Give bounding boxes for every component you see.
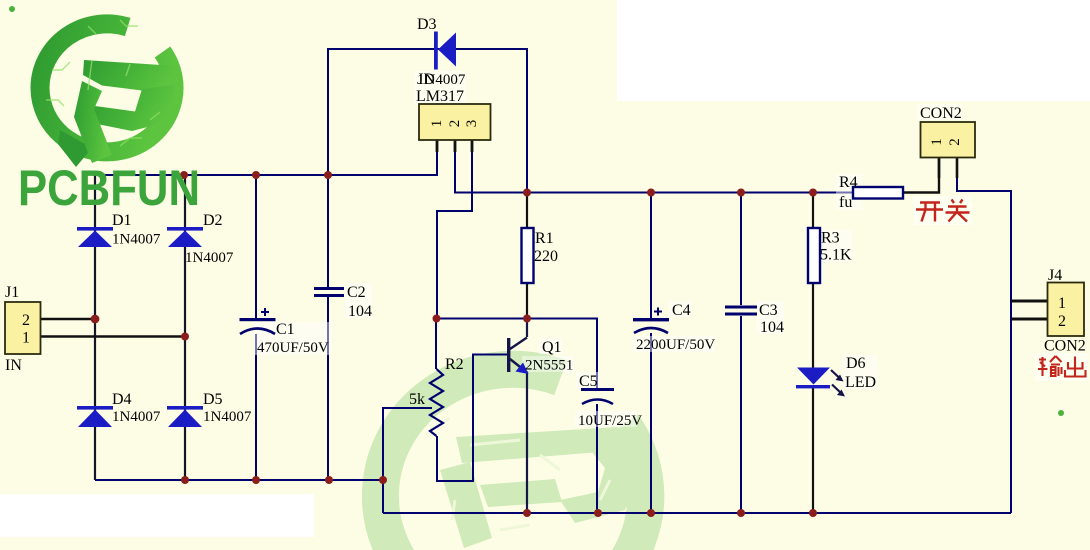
junction D2 top rail [180,171,188,179]
wire Q1 emitter column [526,371,528,513]
watermark logo [380,369,645,550]
diode D2 [167,227,203,247]
svg-text:1N4007: 1N4007 [112,409,161,425]
svg-text:R4: R4 [839,174,858,191]
svg-text:220: 220 [534,248,558,265]
logo PCBFUN top left [40,20,176,167]
svg-text:2: 2 [447,120,463,128]
wire R2 bottom to Q1 base [437,355,509,482]
svg-text:LED: LED [845,374,876,391]
pin J1 pin1 stub [40,335,185,338]
resistor R3 [808,228,820,283]
junction R2 wiper ground [379,476,387,484]
wire adj rail y=318.5 [436,319,597,389]
wire ground rail left y=480 [95,480,383,513]
wire rail Vin y=175 [95,140,437,175]
pin J4 pin1 stub [1011,300,1047,303]
capacitor C1 [240,308,276,334]
svg-text:2: 2 [1058,313,1066,330]
wire R2 top lead [435,319,437,370]
junction R1 bottom collector [523,315,531,323]
junction C3 output rail [737,189,745,197]
svg-text:C2: C2 [347,284,366,301]
svg-text:1N4007: 1N4007 [185,250,234,266]
svg-text:3: 3 [464,120,480,128]
junction Q1 emitter ground [523,509,531,517]
junction C1 top rail [252,171,260,179]
junction J1 pin1 node [181,333,189,341]
wire R2 wiper to ground [383,408,432,480]
wire LM317 pin3 adj [437,140,472,319]
wire C5 bottom lead [596,404,598,513]
label halos (jpeg-style light boxes) [254,71,1089,427]
wire C1 column [255,175,257,480]
svg-text:1: 1 [1058,295,1066,312]
wire D1 column [94,175,96,480]
junction C3 ground [737,509,745,517]
junction R1 output rail [523,189,531,197]
svg-text:JD: JD [417,71,435,88]
wire ground rail bottom y=513 [383,512,1011,514]
pin J1 pin2 stub [40,318,95,321]
pin CON2 stubs [939,158,957,178]
svg-text:2200UF/50V: 2200UF/50V [636,337,715,353]
svg-text:2: 2 [947,138,963,146]
svg-text:R3: R3 [821,230,840,247]
pin LM317 stubs [437,140,472,152]
svg-text:C4: C4 [672,302,691,319]
svg-text:PCBFUN: PCBFUN [18,160,200,216]
wire D2 column [184,175,186,480]
wire top loop D3 net [328,49,527,193]
junction D6 ground [809,509,817,517]
svg-text:104: 104 [760,319,784,336]
junction C4 ground [647,509,655,517]
resistor R2 (5k) zigzag [430,369,443,436]
junction D5 ground rail [181,476,189,484]
capacitor C3 [725,306,757,316]
resistor R4 [853,187,903,199]
junction C5 ground [594,509,602,517]
svg-text:fu: fu [839,194,852,211]
wire C3 column [740,193,742,514]
green speck right [1058,410,1064,416]
pin J4 pin2 stub [1011,318,1047,321]
diode D5 [167,406,203,427]
svg-text:C5: C5 [579,373,598,390]
svg-text:D6: D6 [846,355,866,372]
diode D1 [77,227,113,247]
diode D4 [77,406,113,427]
svg-text:C3: C3 [759,302,778,319]
capacitor C4 [633,308,669,334]
svg-text:1N4007: 1N4007 [203,409,252,425]
junction R3 output rail [809,189,817,197]
svg-text:D5: D5 [203,391,223,408]
wire R3 D6 column [812,193,814,514]
capacitor C5 [581,388,614,404]
capacitor C2 [314,287,344,297]
svg-text:J4: J4 [1048,267,1062,284]
wire C4 column [650,193,652,514]
label kaiguan (switch) red [916,200,970,222]
green speck top left [9,6,15,12]
white patch top right [617,0,1090,101]
wire R4 right to CON2 pin1 [903,158,939,193]
transistor Q1 [507,338,529,375]
svg-text:D2: D2 [203,212,223,229]
svg-text:104: 104 [348,303,372,320]
svg-text:2: 2 [22,312,30,329]
white patch bottom left [0,494,314,537]
wire CON2 pin2 down right to J4 column [957,158,1011,513]
svg-text:CON2: CON2 [920,105,962,122]
svg-text:D3: D3 [417,16,437,33]
svg-text:R1: R1 [535,230,554,247]
svg-text:1: 1 [929,138,945,146]
svg-text:LM317: LM317 [416,88,464,105]
svg-text:10UF/25V: 10UF/25V [578,413,642,429]
junction C2 top rail [324,171,332,179]
wire Q1 collector lead [526,319,528,338]
wire C2 column [327,175,329,480]
LED D6 [796,368,845,397]
svg-text:D4: D4 [112,391,132,408]
junction J1 pin2 node [91,315,100,324]
junction C1 ground rail [252,476,260,484]
svg-text:5k: 5k [409,391,425,408]
wire R1 leads [526,193,528,229]
svg-text:1: 1 [429,120,445,128]
svg-text:CON2: CON2 [1044,338,1086,355]
resistor R1 [522,228,534,283]
junction adj node R2 [433,315,441,323]
svg-text:R2: R2 [445,356,464,373]
svg-text:5.1K: 5.1K [820,247,852,264]
svg-text:2N5551: 2N5551 [525,358,573,374]
svg-text:1: 1 [22,330,30,347]
svg-text:1N4007: 1N4007 [112,232,161,248]
svg-text:470UF/50V: 470UF/50V [257,340,329,356]
diode D3 [434,32,456,70]
svg-text:Q1: Q1 [542,339,562,356]
svg-text:IN: IN [5,357,22,374]
junction C4 output rail [647,189,655,197]
svg-text:J1: J1 [5,284,19,301]
svg-text:C1: C1 [276,321,295,338]
junction C2 ground rail [325,476,333,484]
wire LM317 pin2 to output rail y=192.5 [455,140,853,193]
label shuchu (output) red [1038,356,1086,377]
